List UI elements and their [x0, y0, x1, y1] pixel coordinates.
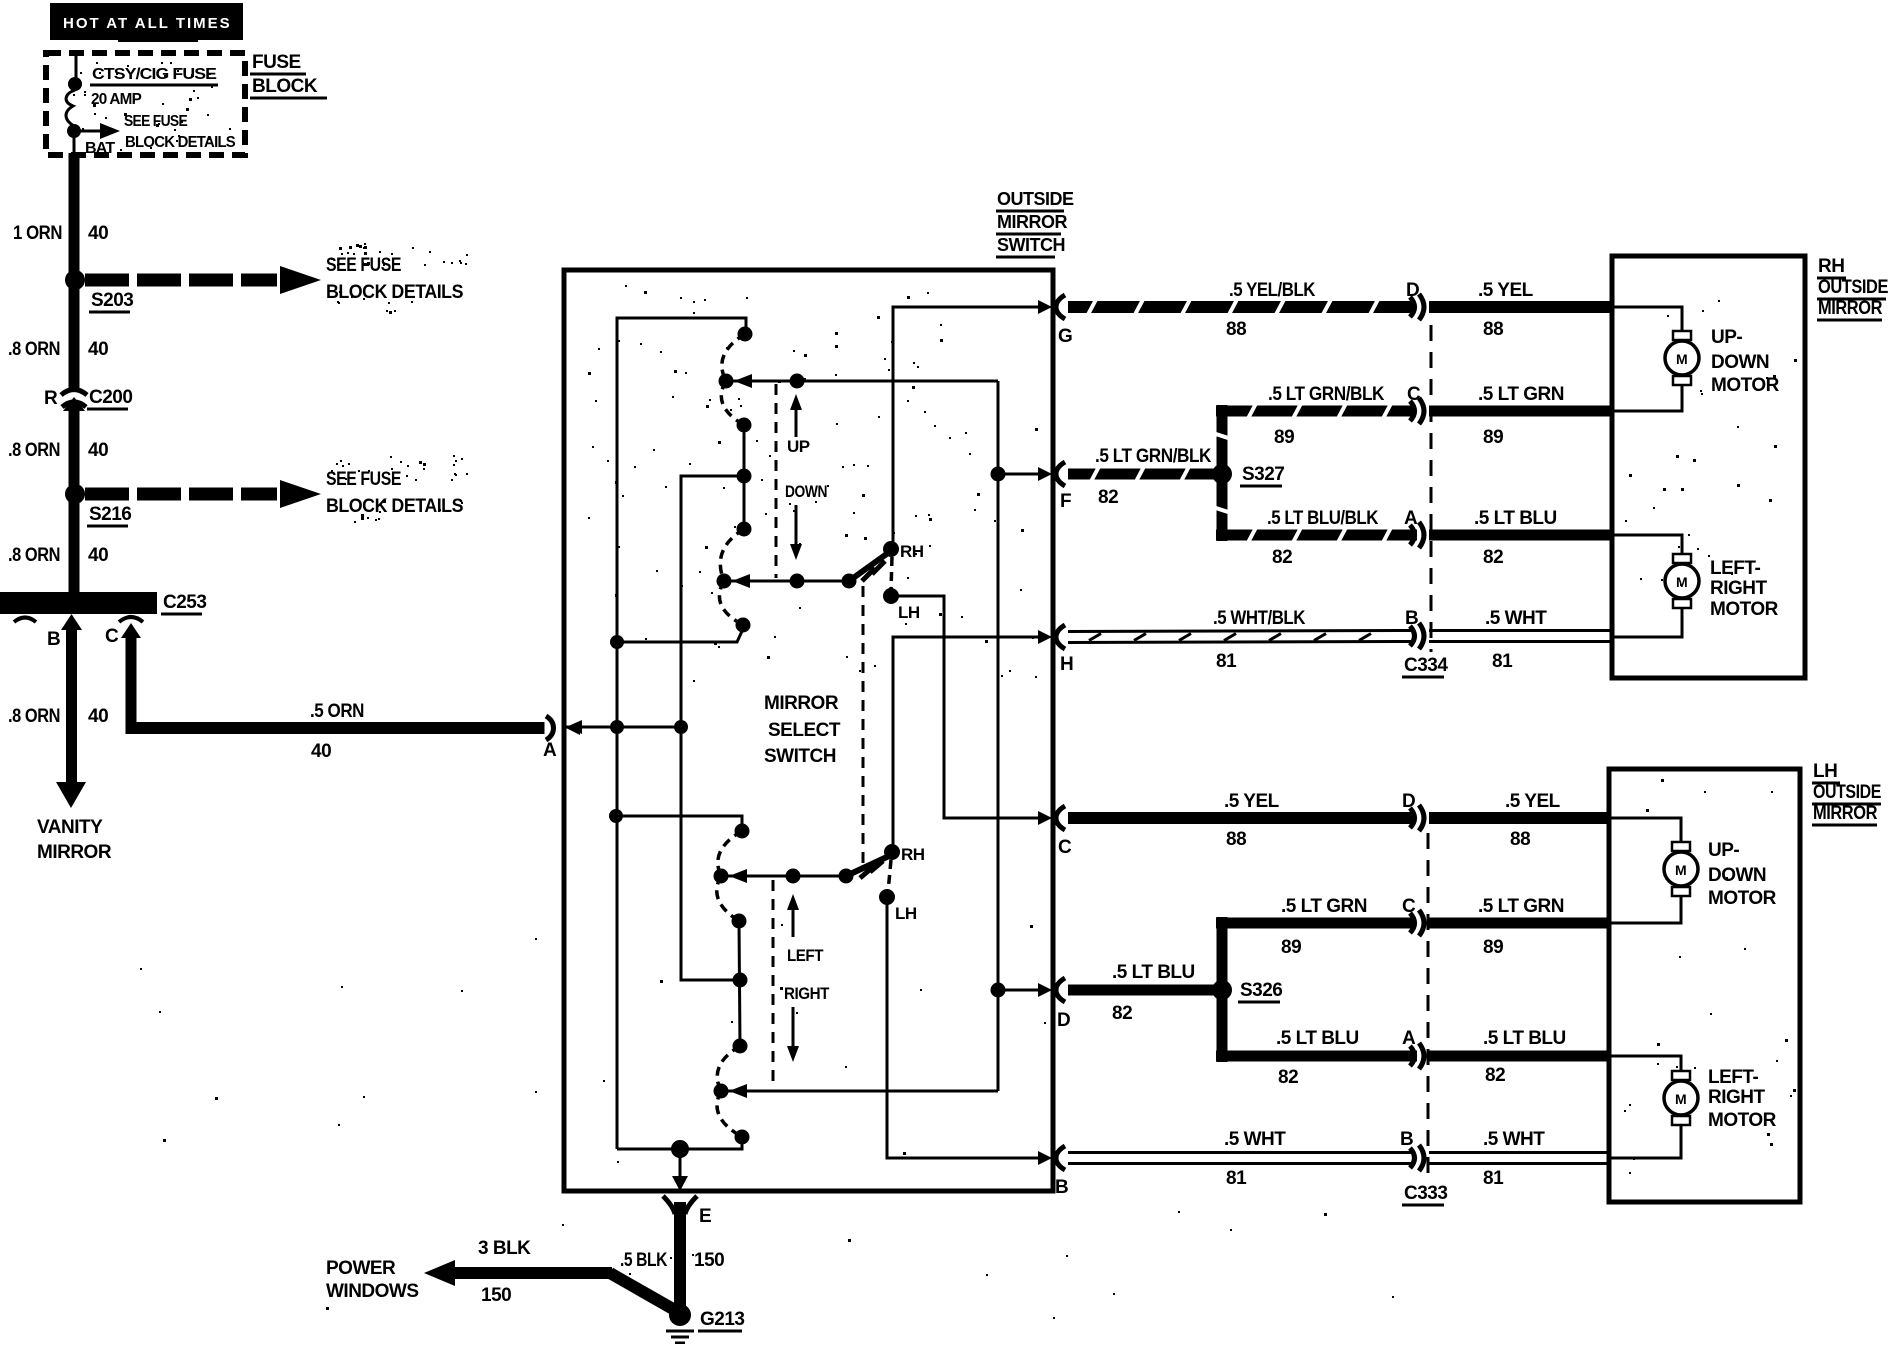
svg-text:BLOCK DETAILS: BLOCK DETAILS — [326, 496, 463, 517]
svg-text:R: R — [44, 388, 58, 409]
svg-text:.5 LT GRN: .5 LT GRN — [1478, 896, 1564, 917]
svg-text:RH: RH — [900, 542, 924, 561]
wire .8 ORN 40 to vanity mirror — [8, 628, 112, 863]
svg-text:C253: C253 — [163, 592, 206, 613]
wire .5 YEL 88 (LH) — [1429, 791, 1610, 850]
connector C253 terminal C — [105, 617, 143, 647]
svg-text:VANITY: VANITY — [37, 817, 103, 838]
svg-text:.5 LT GRN/BLK: .5 LT GRN/BLK — [1268, 384, 1385, 405]
svg-text:A: A — [543, 740, 557, 761]
svg-text:40: 40 — [88, 545, 108, 566]
LH outside mirror box — [1609, 761, 1881, 1202]
svg-text:.5 WHT: .5 WHT — [1485, 608, 1547, 629]
svg-text:F: F — [1060, 491, 1071, 512]
wire up-down wiper UP row — [726, 374, 998, 389]
svg-text:S203: S203 — [91, 290, 133, 311]
wire .5 BLK 150 (E to G213) — [620, 1202, 724, 1310]
svg-text:C: C — [1407, 384, 1421, 405]
fuse block dashed box — [46, 52, 327, 155]
svg-text:LEFT-: LEFT- — [1708, 1067, 1758, 1088]
svg-text:RIGHT: RIGHT — [784, 984, 830, 1003]
svg-text:UP-: UP- — [1708, 840, 1739, 861]
svg-text:.5 LT BLU/BLK: .5 LT BLU/BLK — [1267, 508, 1379, 529]
svg-text:WINDOWS: WINDOWS — [326, 1281, 419, 1302]
svg-text:CTSY/CIG FUSE: CTSY/CIG FUSE — [92, 66, 217, 83]
LH up-down motor wiring — [1611, 818, 1681, 923]
svg-text:40: 40 — [88, 339, 108, 360]
wire 1 ORN 40 from BAT — [13, 131, 108, 273]
wire 3 BLK 150 to power windows — [326, 1238, 680, 1313]
motor M left-right (RH) — [1665, 554, 1779, 620]
wire common riser to F and D — [991, 381, 1053, 1091]
wire .8 ORN 40 (C200 to S216) — [8, 409, 108, 486]
svg-text:D: D — [1057, 1010, 1070, 1031]
svg-text:G213: G213 — [700, 1309, 744, 1330]
RH up-down motor wiring — [1614, 307, 1682, 411]
svg-text:SEE FUSE: SEE FUSE — [326, 469, 401, 490]
svg-text:1 ORN: 1 ORN — [13, 223, 62, 244]
wire .5 LT BLU/BLK 82 (S327 to A) — [1216, 508, 1417, 568]
wire from fuse block top to fuse — [75, 55, 78, 80]
svg-text:C333: C333 — [1404, 1183, 1447, 1204]
svg-text:SELECT: SELECT — [768, 720, 841, 741]
inline connector D (LH) — [1402, 791, 1424, 831]
splice S203 — [65, 270, 133, 312]
svg-text:150: 150 — [481, 1285, 511, 1306]
svg-text:MIRROR: MIRROR — [37, 842, 112, 863]
svg-text:DOWN: DOWN — [1711, 352, 1769, 373]
ground G213 — [666, 1304, 744, 1343]
svg-text:.8 ORN: .8 ORN — [8, 545, 60, 566]
wire .5 WHT 81 (RH) — [1429, 608, 1613, 672]
svg-text:MOTOR: MOTOR — [1708, 888, 1777, 909]
wire .5 LT GRN 89 (RH) — [1429, 384, 1613, 448]
dashed arrow see fuse block details (S216) — [85, 469, 463, 517]
svg-text:.5 LT BLU: .5 LT BLU — [1474, 508, 1557, 529]
svg-text:3 BLK: 3 BLK — [478, 1238, 531, 1259]
fuse CTSY/CIG FUSE 20 AMP — [66, 66, 218, 126]
dashed connector line C333 — [1427, 833, 1430, 1183]
svg-text:82: 82 — [1272, 547, 1292, 568]
svg-text:.5 WHT: .5 WHT — [1483, 1129, 1545, 1150]
svg-text:UP: UP — [787, 437, 810, 456]
svg-text:.8 ORN: .8 ORN — [8, 339, 60, 360]
svg-text:82: 82 — [1112, 1003, 1132, 1024]
inline connector C (LH) — [1402, 896, 1424, 936]
left-right motion arrows and labels — [784, 894, 830, 1062]
svg-text:.5 YEL: .5 YEL — [1224, 791, 1280, 812]
svg-text:BLOCK: BLOCK — [252, 76, 318, 97]
up-down motion arrows and labels — [785, 394, 827, 560]
wire .5 LT GRN 89 (LH) — [1429, 896, 1610, 958]
svg-text:LEFT: LEFT — [787, 946, 824, 965]
left-right rocker contact arcs (lower) — [714, 824, 750, 1145]
wire bottom bus to E — [617, 1137, 742, 1191]
splice S326 — [1212, 917, 1282, 1062]
svg-text:81: 81 — [1226, 1168, 1247, 1189]
svg-text:81: 81 — [1483, 1168, 1504, 1189]
wire .5 LT GRN/BLK 82 (F to S327) — [1068, 446, 1222, 508]
wire feed tap to lower rocker upper contact — [609, 809, 742, 829]
connector G at switch edge — [1056, 295, 1072, 347]
svg-text:UP-: UP- — [1711, 327, 1742, 348]
svg-text:OUTSIDE: OUTSIDE — [997, 189, 1074, 209]
wire C output (LH up-down) — [891, 596, 1052, 825]
wire .5 LT GRN/BLK 89 (S327 to C) — [1216, 384, 1414, 448]
label HOT AT ALL TIMES — [50, 3, 243, 42]
svg-text:40: 40 — [88, 440, 108, 461]
connector E below switch box — [663, 1196, 711, 1227]
outside mirror switch label — [996, 189, 1074, 257]
splice S216 — [65, 484, 131, 526]
svg-text:OUTSIDE: OUTSIDE — [1818, 277, 1888, 298]
svg-text:.5 LT GRN: .5 LT GRN — [1478, 384, 1564, 405]
svg-text:A: A — [1402, 1028, 1416, 1049]
svg-text:.5 LT BLU: .5 LT BLU — [1483, 1028, 1566, 1049]
svg-text:82: 82 — [1098, 487, 1118, 508]
svg-text:D: D — [1402, 791, 1415, 812]
svg-text:MOTOR: MOTOR — [1711, 375, 1780, 396]
svg-text:88: 88 — [1483, 319, 1503, 340]
svg-text:BLOCK DETAILS: BLOCK DETAILS — [326, 282, 463, 303]
svg-text:B: B — [1055, 1177, 1068, 1198]
svg-text:C: C — [1402, 896, 1416, 917]
svg-text:40: 40 — [311, 741, 331, 762]
connector B at switch edge (LH) — [1055, 1146, 1068, 1198]
svg-text:A: A — [1404, 508, 1418, 529]
wire A input — [564, 720, 688, 734]
svg-text:C: C — [1058, 837, 1072, 858]
svg-text:POWER: POWER — [326, 1258, 396, 1279]
svg-text:.5 BLK: .5 BLK — [620, 1250, 668, 1271]
svg-text:20 AMP: 20 AMP — [91, 91, 142, 108]
connector H at switch edge — [1056, 625, 1073, 675]
svg-text:.5 YEL: .5 YEL — [1505, 791, 1561, 812]
svg-text:BLOCK DETAILS: BLOCK DETAILS — [125, 134, 236, 151]
svg-text:M: M — [1675, 1091, 1687, 1107]
svg-text:LH: LH — [895, 904, 917, 923]
svg-text:.8 ORN: .8 ORN — [8, 706, 60, 727]
svg-text:.5 LT GRN: .5 LT GRN — [1281, 896, 1367, 917]
connector C at switch edge (LH) — [1056, 806, 1072, 858]
svg-text:RIGHT: RIGHT — [1708, 1087, 1766, 1108]
svg-text:M: M — [1676, 351, 1688, 367]
dashed arrow see fuse block details (S203) — [85, 255, 463, 303]
motor M up-down (RH) — [1665, 327, 1780, 396]
svg-text:150: 150 — [694, 1250, 724, 1271]
svg-text:.5 YEL/BLK: .5 YEL/BLK — [1229, 280, 1316, 301]
svg-text:89: 89 — [1281, 937, 1301, 958]
wire .5 ORN 40 (C253-C to switch A) — [126, 636, 545, 762]
wire .5 WHT 81 (LH) — [1429, 1129, 1610, 1189]
svg-text:DOWN: DOWN — [1708, 865, 1766, 886]
svg-text:40: 40 — [88, 223, 108, 244]
wire .8 ORN 40 (S216 to C253) — [8, 502, 108, 594]
wire .8 ORN 40 (S203 to C200) — [8, 288, 108, 388]
svg-text:FUSE: FUSE — [252, 52, 301, 73]
inline connector A (LH) — [1402, 1028, 1424, 1069]
mechanical link dashed (select switch) — [862, 586, 865, 868]
svg-text:E: E — [699, 1206, 711, 1227]
svg-text:88: 88 — [1226, 319, 1246, 340]
wire left-right wiper RIGHT row — [721, 1084, 998, 1098]
LH left-right motor wiring — [1611, 1056, 1681, 1158]
svg-text:OUTSIDE: OUTSIDE — [1813, 782, 1881, 803]
connector F at switch edge — [1056, 462, 1071, 512]
svg-text:.8 ORN: .8 ORN — [8, 440, 60, 461]
svg-text:SWITCH: SWITCH — [997, 235, 1065, 255]
svg-text:RH: RH — [901, 845, 925, 864]
svg-text:.5 LT GRN/BLK: .5 LT GRN/BLK — [1095, 446, 1212, 467]
splice S327 — [1212, 405, 1284, 541]
select switch wiper lower (RH/LH) — [846, 844, 925, 923]
outside mirror switch box — [564, 270, 1053, 1191]
up-down rocker contact arcs (RH) — [717, 327, 753, 633]
svg-text:82: 82 — [1483, 547, 1503, 568]
svg-text:D: D — [1406, 280, 1419, 301]
node BAT with see fuse block details arrow — [67, 113, 236, 157]
inline connector D (RH up-down) — [1406, 280, 1424, 320]
svg-text:.5 ORN: .5 ORN — [310, 701, 364, 722]
svg-text:C200: C200 — [89, 387, 132, 408]
wire .5 LT BLU 82 (S326 to A LH) — [1216, 1028, 1417, 1088]
svg-text:81: 81 — [1216, 651, 1237, 672]
wire .5 LT GRN 89 (S326 to C LH) — [1216, 896, 1414, 958]
svg-text:.5 YEL: .5 YEL — [1478, 280, 1534, 301]
motor M left-right (LH) — [1664, 1067, 1777, 1131]
svg-text:H: H — [1060, 654, 1073, 675]
wire feed tap to upper rocker lower contact — [610, 629, 743, 649]
svg-text:C: C — [105, 626, 119, 647]
svg-text:89: 89 — [1483, 427, 1503, 448]
svg-text:.5 WHT/BLK: .5 WHT/BLK — [1213, 608, 1306, 629]
wire .5 YEL/BLK 88 — [1068, 280, 1415, 340]
connector D at switch edge (LH) — [1056, 978, 1070, 1031]
svg-text:88: 88 — [1226, 829, 1246, 850]
RH outside mirror box — [1612, 256, 1888, 678]
svg-text:S216: S216 — [89, 504, 131, 525]
dashed connector line C334 — [1430, 325, 1433, 652]
svg-text:DOWN: DOWN — [785, 482, 827, 501]
inline connector A (RH) — [1404, 508, 1424, 548]
svg-text:89: 89 — [1274, 427, 1294, 448]
wire B output (LH common) — [887, 897, 1052, 1165]
svg-text:MOTOR: MOTOR — [1708, 1110, 1777, 1131]
svg-text:.5 WHT: .5 WHT — [1224, 1129, 1286, 1150]
wire .5 LT BLU 82 (LH) — [1429, 1028, 1610, 1086]
svg-text:B: B — [47, 629, 60, 650]
wire .5 LT BLU 82 (RH) — [1429, 508, 1613, 568]
svg-text:M: M — [1675, 862, 1687, 878]
svg-text:RH: RH — [1818, 256, 1844, 277]
wire .5 LT BLU 82 (D to S326) — [1068, 962, 1222, 1024]
RH left-right motor wiring — [1614, 535, 1682, 637]
inline connector C (RH) — [1407, 384, 1424, 424]
svg-text:C334: C334 — [1404, 655, 1448, 676]
connector C253 terminal B — [47, 614, 82, 650]
mechanical link dashed (up-down rocker) — [775, 384, 778, 578]
svg-text:S326: S326 — [1240, 980, 1282, 1001]
wire .5 WHT 81 (switch to B LH) — [1068, 1129, 1415, 1189]
wire G output (RH up-down) — [893, 300, 1052, 549]
inline connector B / C333 — [1400, 1129, 1447, 1205]
wire H output (RH common) — [893, 630, 1052, 852]
svg-text:SEE FUSE: SEE FUSE — [124, 113, 188, 130]
wire .5 YEL 88 (switch to D LH) — [1068, 791, 1415, 850]
svg-text:S327: S327 — [1242, 464, 1284, 485]
svg-text:40: 40 — [88, 706, 108, 727]
wire left-right wiper LEFT row — [721, 869, 854, 884]
wire .5 WHT/BLK 81 — [1068, 608, 1415, 672]
svg-text:82: 82 — [1485, 1065, 1505, 1086]
svg-text:.5 LT BLU: .5 LT BLU — [1276, 1028, 1359, 1049]
svg-text:HOT AT ALL TIMES: HOT AT ALL TIMES — [63, 15, 232, 32]
svg-text:88: 88 — [1510, 829, 1530, 850]
svg-text:G: G — [1058, 326, 1072, 347]
svg-text:82: 82 — [1278, 1067, 1298, 1088]
svg-text:.5 LT BLU: .5 LT BLU — [1112, 962, 1195, 983]
wire up-down wiper DOWN row — [724, 574, 857, 589]
svg-text:MIRROR: MIRROR — [1818, 298, 1883, 319]
connector C200 terminal R — [44, 387, 132, 411]
motor M up-down (LH) — [1664, 840, 1777, 909]
wire common V2 from A — [681, 476, 744, 980]
mechanical link dashed (left-right rocker) — [772, 880, 775, 1087]
svg-text:B: B — [1400, 1129, 1413, 1150]
svg-text:MIRROR: MIRROR — [764, 693, 839, 714]
connector C253 — [0, 592, 206, 622]
label mirror select switch — [764, 693, 841, 767]
svg-text:RIGHT: RIGHT — [1710, 578, 1768, 599]
svg-text:MIRROR: MIRROR — [997, 212, 1067, 232]
svg-text:LEFT-: LEFT- — [1710, 558, 1760, 579]
wire .5 YEL 88 (RH) — [1429, 280, 1613, 340]
svg-text:81: 81 — [1492, 651, 1513, 672]
svg-text:SWITCH: SWITCH — [764, 746, 836, 767]
select switch wiper upper (RH/LH) — [849, 541, 924, 622]
svg-text:MIRROR: MIRROR — [1813, 803, 1878, 824]
svg-text:M: M — [1676, 574, 1688, 590]
svg-text:B: B — [1405, 608, 1418, 629]
inline connector B / C334 — [1402, 608, 1448, 677]
svg-text:MOTOR: MOTOR — [1710, 599, 1779, 620]
connector A of mirror switch — [543, 716, 580, 761]
svg-text:LH: LH — [1813, 761, 1837, 782]
wire feed bus V1 — [617, 318, 746, 1149]
svg-text:BAT: BAT — [85, 140, 115, 157]
svg-text:89: 89 — [1483, 937, 1503, 958]
svg-text:LH: LH — [898, 603, 920, 622]
